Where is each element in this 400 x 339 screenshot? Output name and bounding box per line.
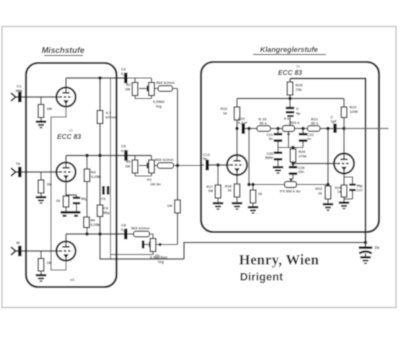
wire B+ column upper xyxy=(99,78,101,111)
wire input1 to V1a grid xyxy=(22,96,57,98)
resistor R23 xyxy=(325,186,331,199)
resistor R13 on bus xyxy=(175,200,181,213)
capacitor C26 bass xyxy=(292,164,294,168)
input jack 2 xyxy=(11,168,16,176)
wire C19 to grid xyxy=(209,164,227,166)
input jack 1 xyxy=(11,93,16,101)
ground below R24 xyxy=(339,202,349,204)
svg-text:1/2W: 1/2W xyxy=(350,110,359,114)
resistor R5 pot box 2 xyxy=(132,160,138,173)
wire C2 to pot box 1 xyxy=(128,77,152,79)
svg-text:R19: R19 xyxy=(220,107,227,111)
wire pot box 1 bottom xyxy=(135,98,152,100)
resistor R10 xyxy=(97,205,103,217)
resistor R24 cathode V3b xyxy=(341,185,347,197)
wire P4 to R21 xyxy=(295,128,308,130)
resistor R21 xyxy=(308,126,321,132)
wire R19 to anode node xyxy=(236,120,238,129)
wire screen column lower2 xyxy=(86,228,88,235)
wire pot box 1 left side xyxy=(134,78,136,83)
triode V2a xyxy=(56,241,75,260)
svg-text:1n: 1n xyxy=(307,137,311,141)
svg-text:R2: R2 xyxy=(126,83,131,87)
svg-text:5n: 5n xyxy=(269,137,273,141)
svg-text:R25: R25 xyxy=(296,84,303,88)
svg-text:1µF: 1µF xyxy=(331,120,338,124)
svg-text:75k: 75k xyxy=(296,88,303,92)
resistor R22 anode V3b xyxy=(341,107,347,118)
svg-text:R4: R4 xyxy=(91,171,96,175)
wire anode rail ch3 xyxy=(66,233,124,235)
capacitor C27 parallel loop xyxy=(344,177,353,184)
svg-text:560 kOhm: 560 kOhm xyxy=(131,226,150,231)
node mix junction xyxy=(176,164,179,167)
wire cathode bus V1a to V2a xyxy=(51,107,66,270)
svg-text:R23: R23 xyxy=(315,187,322,191)
svg-text:50 k: 50 k xyxy=(260,122,268,126)
capacitor C8 coupling ch3 xyxy=(124,229,127,240)
svg-text:ECC 83: ECC 83 xyxy=(57,134,81,141)
svg-text:270k: 270k xyxy=(299,154,308,158)
ground below R1 xyxy=(36,121,46,123)
svg-text:5000: 5000 xyxy=(265,156,273,160)
triode V1b xyxy=(56,162,75,181)
wire P3 bottom return xyxy=(111,252,154,255)
node B2 xyxy=(98,154,101,157)
node anode V3b output xyxy=(342,127,345,130)
wire mixing bus upper xyxy=(177,89,179,201)
wire V1b anode up xyxy=(65,156,67,163)
resistor R20 treble series xyxy=(257,126,271,132)
capacitor C23 coupling xyxy=(333,124,336,133)
node D2 xyxy=(98,232,101,235)
wire P2 to R6 xyxy=(155,165,158,167)
capacitor C5 coupling ch2 xyxy=(124,150,127,161)
resistor R4 grid leak xyxy=(40,172,42,180)
wire output line xyxy=(344,128,389,130)
svg-text:Henry, Wien: Henry, Wien xyxy=(239,253,319,269)
capacitor C25 to ground xyxy=(277,148,279,153)
wire R21 to C23 xyxy=(320,128,333,130)
svg-text:R5: R5 xyxy=(126,160,131,164)
svg-text:1M lin: 1M lin xyxy=(150,182,161,186)
svg-text:1k: 1k xyxy=(337,190,341,194)
wire mixing bus lower xyxy=(177,213,179,245)
svg-text:v3: v3 xyxy=(70,278,74,282)
wire V1a anode up xyxy=(65,78,67,87)
svg-text:ECC 83: ECC 83 xyxy=(278,70,302,77)
svg-text:500 k: 500 k xyxy=(290,121,300,125)
svg-text:R26: R26 xyxy=(299,150,306,154)
wire C23 to anode node xyxy=(337,128,344,130)
wire screen column xyxy=(86,156,88,170)
svg-text:50µ: 50µ xyxy=(104,211,110,215)
cathode RC V1b xyxy=(66,182,77,195)
ground below R4 xyxy=(36,196,46,198)
wire R19 feed xyxy=(236,99,238,108)
svg-text:10n: 10n xyxy=(298,170,304,174)
resistor R7 grid leak xyxy=(40,251,42,259)
resistor R19 anode V3a xyxy=(234,107,240,120)
tone stage enclosure box xyxy=(201,62,379,232)
wire C8 to R8 xyxy=(128,233,134,235)
resistor R26 slider xyxy=(290,149,296,162)
svg-text:560 kOhm: 560 kOhm xyxy=(155,157,174,162)
svg-text:C6: C6 xyxy=(101,197,106,201)
svg-text:Mik: Mik xyxy=(16,88,23,93)
wiper arrow P1 xyxy=(139,88,147,90)
wire R8 to P3 xyxy=(150,234,154,239)
shared ground bar xyxy=(61,211,81,214)
wire to V3b grid xyxy=(293,163,334,165)
potentiometer P4 treble xyxy=(283,126,295,132)
wire R22 feed xyxy=(343,99,345,107)
wire V3b cathode xyxy=(343,174,345,185)
svg-text:1M: 1M xyxy=(125,87,130,91)
svg-text:TA: TA xyxy=(15,161,20,166)
wire V3a anode xyxy=(236,129,238,156)
wire anode rail ch2 xyxy=(66,155,152,157)
capacitor C19 input xyxy=(206,160,209,171)
wire screen column lower xyxy=(86,182,88,218)
svg-text:0,25M: 0,25M xyxy=(91,175,101,179)
svg-text:Klangreglerstufe: Klangreglerstufe xyxy=(260,45,318,54)
svg-text:0,1: 0,1 xyxy=(121,71,127,76)
wiper arrow P4 xyxy=(288,133,290,147)
wire x328 junction column xyxy=(327,129,329,185)
node B+ cap xyxy=(364,241,367,244)
svg-text:0,1: 0,1 xyxy=(121,227,127,232)
wire V3b anode xyxy=(343,129,345,154)
wire B+ rail xyxy=(184,243,366,260)
wire R20 to node xyxy=(271,128,283,130)
wire C20 to R20 xyxy=(245,128,257,130)
wiper blob P3 xyxy=(142,241,145,249)
wire anode rail right block xyxy=(237,98,344,100)
wire pot box 2 left side xyxy=(134,156,136,161)
wire tone mid rail xyxy=(278,147,303,149)
wire C24 down xyxy=(289,117,291,128)
wire R6 to mix node xyxy=(174,165,202,167)
wire R3 to bus xyxy=(173,88,178,90)
svg-text:2x: 2x xyxy=(375,245,381,250)
wire riser xyxy=(110,78,112,259)
wire input2 to V1b grid xyxy=(22,171,57,173)
capacitor C7 cathode bypass xyxy=(76,195,78,197)
wire V2a anode up xyxy=(65,234,67,241)
svg-text:4,7: 4,7 xyxy=(106,111,111,115)
wire pot box 2 bottom xyxy=(135,175,152,177)
svg-text:C9: C9 xyxy=(104,207,109,211)
potentiometer P3 volume ch3 xyxy=(150,239,156,252)
svg-text:5n: 5n xyxy=(203,157,208,161)
capacitor C24 electrolytic xyxy=(286,107,294,109)
potentiometer P5 bass xyxy=(285,182,297,188)
wire B+ column lower xyxy=(100,217,184,260)
svg-text:2x: 2x xyxy=(296,65,300,69)
svg-text:0,25M: 0,25M xyxy=(91,223,101,227)
svg-text:Dirigent: Dirigent xyxy=(240,272,283,284)
node grid V3b xyxy=(291,162,294,165)
capacitor C22 treble right xyxy=(302,129,304,135)
wire B+ column mid xyxy=(99,124,101,206)
resistor R2 pot box 1 xyxy=(132,83,138,96)
svg-text:C: C xyxy=(296,107,299,111)
resistor R25 decoupling xyxy=(287,82,293,95)
ground below R28 xyxy=(248,206,258,208)
node tone left xyxy=(276,127,279,130)
resistor R3 mixing ch1 xyxy=(158,86,173,92)
input jack 3 xyxy=(11,247,16,255)
wire grid input V3a xyxy=(201,164,204,166)
svg-text:0,1: 0,1 xyxy=(121,148,127,153)
node A1 xyxy=(98,76,101,79)
wire B+ top rail xyxy=(290,79,366,243)
svg-text:560 kOhm: 560 kOhm xyxy=(156,80,175,85)
capacitor C6 at block edge xyxy=(102,186,105,195)
svg-text:4µ: 4µ xyxy=(296,111,300,115)
triode V3b xyxy=(334,154,354,174)
svg-text:1k: 1k xyxy=(318,191,322,195)
svg-text:0,5MΩ: 0,5MΩ xyxy=(153,100,165,104)
wire R22 to anode node xyxy=(343,118,345,129)
ground below R17 xyxy=(213,202,223,204)
node wiper mid xyxy=(291,146,294,149)
svg-text:1M: 1M xyxy=(47,106,52,111)
node B1 xyxy=(85,154,88,157)
svg-text:1M: 1M xyxy=(125,164,130,168)
triode V1a xyxy=(56,87,75,106)
resistor R28 xyxy=(252,185,254,191)
wire R25 to node xyxy=(289,95,291,107)
resistor R9 anode V1a xyxy=(97,111,103,124)
potentiometer P1 volume ch1 xyxy=(151,78,153,83)
ground below C28 xyxy=(360,256,370,258)
svg-text:log: log xyxy=(156,104,162,108)
triode V3a xyxy=(227,155,247,175)
svg-text:R22: R22 xyxy=(350,106,357,110)
svg-text:Mischstufe: Mischstufe xyxy=(42,46,85,55)
wire R25 feed xyxy=(289,79,291,83)
wire anode node ch1 xyxy=(66,77,124,79)
ground below C25 xyxy=(273,166,283,168)
ground below R18 xyxy=(232,202,242,204)
wire bass row xyxy=(249,184,328,186)
svg-text:C27: C27 xyxy=(357,188,363,192)
svg-text:P 5 500 k lin: P 5 500 k lin xyxy=(280,190,301,194)
resistor R12 cathode V1b xyxy=(63,196,69,207)
capacitor C20 coupling xyxy=(242,123,245,134)
svg-text:P2: P2 xyxy=(147,178,152,182)
electrolytic C28 power filter xyxy=(365,243,367,247)
mixer stage enclosure box xyxy=(26,63,117,287)
svg-text:1M: 1M xyxy=(208,189,213,193)
node tone right xyxy=(301,127,304,130)
svg-text:80 k: 80 k xyxy=(311,122,319,126)
wiper arrow P5 xyxy=(291,179,293,181)
svg-text:2k: 2k xyxy=(228,189,232,193)
resistor R6 mixing ch2 xyxy=(158,163,174,169)
node decoupled rail xyxy=(288,97,291,100)
potentiometer P2 volume ch2 xyxy=(151,156,153,161)
resistor R17 grid xyxy=(217,165,219,185)
wire bass row to cathode branch xyxy=(327,185,329,189)
svg-text:v1: v1 xyxy=(69,129,73,133)
capacitor C2 coupling ch1 xyxy=(124,73,127,84)
svg-text:0,1µF: 0,1µF xyxy=(238,121,248,125)
wire C20 branch down xyxy=(248,129,250,185)
svg-text:50µ: 50µ xyxy=(81,197,87,201)
svg-text:1M: 1M xyxy=(167,204,172,208)
resistor R14 xyxy=(84,217,90,228)
svg-text:log: log xyxy=(158,259,164,264)
resistor R11 xyxy=(84,169,90,182)
wiper arrow P3 xyxy=(144,244,150,246)
resistor R1 grid leak xyxy=(40,97,42,105)
resistor R8 mixing ch3 xyxy=(134,231,150,237)
node anode V3a xyxy=(235,127,238,130)
ground below R7 xyxy=(36,274,46,276)
ground below R23 xyxy=(323,203,333,205)
svg-text:kOhm: kOhm xyxy=(106,115,116,119)
resistor R18 cathode xyxy=(236,175,238,184)
wiper arrow P2 xyxy=(139,165,147,167)
node D1 xyxy=(85,232,88,235)
svg-text:50µ: 50µ xyxy=(357,184,363,188)
wire input3 to V2a grid xyxy=(22,250,57,252)
wire P3 to bus xyxy=(156,244,177,246)
wire P1 to R3 xyxy=(155,88,158,90)
capacitor C21 treble left xyxy=(277,129,279,135)
svg-text:R6: R6 xyxy=(91,219,96,223)
